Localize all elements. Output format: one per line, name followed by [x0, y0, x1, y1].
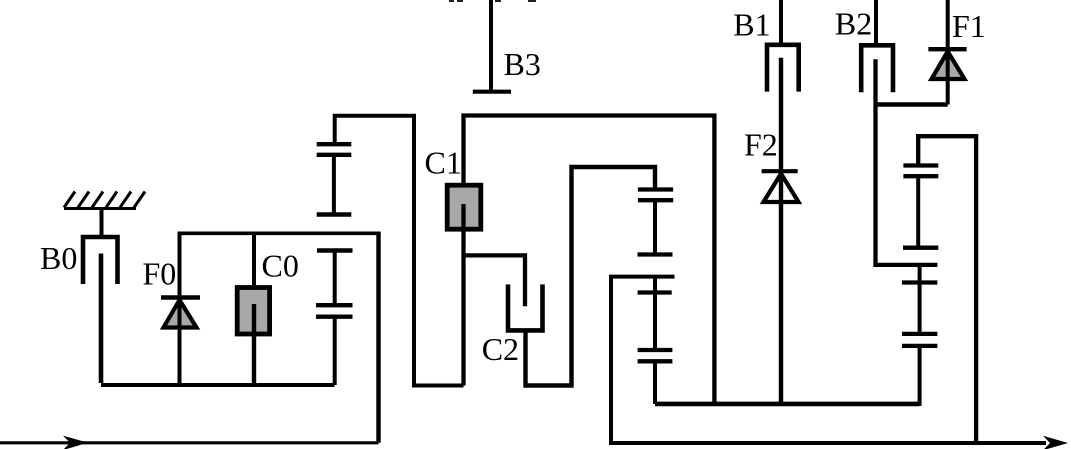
wire: stem bar to plate — [333, 251, 337, 306]
brake B1 stem — [779, 0, 783, 45]
svg-text:F2: F2 — [744, 126, 778, 162]
band brake B3 bar — [473, 90, 511, 94]
wire: C0 top stem — [252, 233, 256, 288]
clutch C2 cup — [508, 284, 543, 330]
wire: B2 inner plate down, corner to ring — [876, 59, 938, 265]
wire: B2 to F1 bar — [876, 102, 948, 106]
svg-text:B3: B3 — [504, 46, 541, 82]
brake B2 outer fork — [861, 45, 893, 92]
wire: stem plate4 to pair (center) — [653, 293, 657, 349]
wire: branch to C2 inner plate — [464, 255, 526, 306]
wire: stem between plates (front) — [332, 155, 336, 213]
wire: F0 vertical line — [178, 233, 182, 385]
wire: F0 line over triangle — [178, 298, 182, 386]
wire: rear rail down right edge to output — [918, 136, 976, 443]
one-way clutch F0 bar — [161, 295, 200, 299]
wire: stem to long rail right end — [918, 346, 922, 406]
svg-text:B2: B2 — [835, 6, 872, 42]
wire: F1 line to B2 bar — [946, 49, 950, 104]
wire: stem to long output rail — [653, 361, 657, 404]
brake B0 stem from ground — [100, 208, 104, 239]
band brake B3 stem — [489, 0, 493, 92]
one-way clutch F0 triangle — [164, 300, 197, 328]
brake B1 outer fork — [767, 45, 799, 92]
gear plate pair upper (rear) — [903, 163, 938, 167]
clutch C1 cylinder — [447, 185, 481, 229]
gear plate single (rear) — [903, 246, 938, 250]
svg-text:C1: C1 — [425, 145, 462, 181]
gear plate pair upper (center) — [638, 187, 673, 191]
input line with arrow — [0, 441, 379, 444]
svg-text:C2: C2 — [482, 331, 519, 367]
brake B0 outer fork — [83, 237, 118, 284]
gear plate4 (rear) — [902, 280, 937, 284]
output arrowhead — [1043, 436, 1068, 449]
svg-text:C0: C0 — [262, 248, 299, 284]
wire: stem B2 ring bar down through plates — [918, 265, 922, 332]
one-way clutch F1 bar — [928, 47, 966, 51]
gear plate4 (center) — [638, 290, 672, 294]
one-way clutch F1 stem — [946, 0, 950, 49]
wire: stem plate to bottom rail — [333, 317, 337, 385]
wire: input shaft right edge of left box — [376, 232, 380, 443]
svg-text:F0: F0 — [143, 256, 177, 292]
one-way clutch F2 triangle (open) — [764, 174, 799, 202]
wire: rail to sun of front section — [335, 116, 464, 386]
wire: B1 inner plate through F2 down to rail — [779, 58, 783, 404]
svg-text:F1: F1 — [952, 8, 986, 44]
clutch C0 inner stem — [252, 304, 256, 385]
one-way clutch F1 triangle — [932, 52, 965, 80]
wire: rear stem — [916, 176, 920, 246]
gear plate pair upper (front) — [317, 142, 352, 146]
clutch C0 cylinder — [237, 288, 269, 335]
svg-text:B0: B0 — [40, 240, 77, 276]
gear plate single (center) — [638, 252, 673, 256]
wire: long output rail — [655, 402, 919, 407]
ground hatching (case anchor above B0) — [64, 192, 145, 209]
wire: center rail to output line with arrow — [611, 277, 1046, 443]
brake B0 inner plate — [99, 254, 104, 384]
one-way clutch F2 bar — [762, 169, 798, 173]
wire: stem rail to plate4 (center) — [653, 277, 657, 291]
wire: left box top rail — [178, 232, 379, 236]
wire: rail2 from C1 to right, down to output rail — [464, 116, 715, 404]
wire: left box bottom rail — [101, 383, 335, 387]
clutch C1 inner stem down — [461, 204, 465, 386]
clutch plate lower (left box) — [316, 315, 353, 319]
gear plate pair lower (center) — [638, 348, 673, 352]
clutch element top bar (left box) — [317, 248, 353, 252]
input arrowhead — [63, 436, 88, 449]
wire: C2 output down right and up — [526, 167, 656, 386]
clutch plate upper (left box) — [316, 303, 353, 307]
gear plate single (front) — [317, 212, 352, 216]
wire: center stem — [653, 200, 657, 252]
gear plate pair lower (rear) — [902, 332, 937, 336]
cut-off glyph fragments at top edge — [449, 0, 536, 2]
svg-text:B1: B1 — [733, 6, 770, 42]
brake B2 stem — [874, 0, 878, 46]
